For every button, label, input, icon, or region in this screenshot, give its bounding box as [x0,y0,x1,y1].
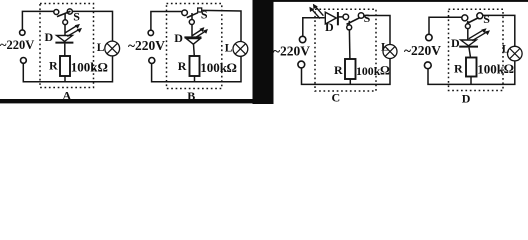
svg-text:100k: 100k [477,62,505,77]
svg-text:Ω: Ω [380,64,390,78]
svg-text:100k: 100k [71,60,99,75]
svg-text:~220V: ~220V [0,38,34,52]
svg-text:R: R [178,59,187,73]
svg-text:D: D [325,20,334,34]
svg-text:D: D [174,31,183,45]
svg-text:Ω: Ω [504,61,514,76]
svg-text:L: L [381,42,389,54]
svg-text:L: L [502,44,510,56]
svg-text:S: S [201,8,208,22]
svg-text:R: R [334,63,343,77]
svg-text:S: S [73,9,80,23]
svg-text:D: D [462,91,471,104]
svg-text:C: C [332,91,341,105]
svg-text:L: L [97,42,105,54]
svg-text:Ω: Ω [98,60,108,75]
svg-text:L: L [225,43,233,55]
svg-text:B: B [187,89,195,103]
svg-text:R: R [454,61,463,75]
svg-text:~220V: ~220V [128,38,165,53]
svg-text:~220V: ~220V [273,43,310,58]
svg-text:~220V: ~220V [404,43,441,58]
svg-text:100k: 100k [356,64,381,78]
svg-text:S: S [364,11,371,25]
svg-text:D: D [45,30,54,44]
svg-text:D: D [451,36,460,50]
svg-text:100k: 100k [200,60,228,75]
svg-text:R: R [49,59,58,73]
svg-text:A: A [63,88,72,102]
svg-text:S: S [483,12,490,26]
svg-text:Ω: Ω [227,60,237,75]
